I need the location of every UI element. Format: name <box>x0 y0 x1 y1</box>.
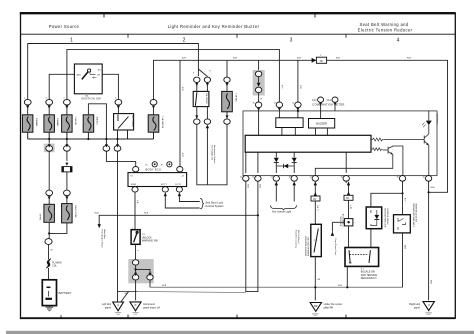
svg-text:R-B: R-B <box>297 58 301 60</box>
ground triangle instrument panel brace LH <box>130 302 160 314</box>
svg-text:2: 2 <box>183 38 186 44</box>
svg-text:R-B: R-B <box>407 58 411 60</box>
svg-text:W-B: W-B <box>338 285 343 287</box>
svg-text:IG: IG <box>131 176 134 178</box>
battery feed connector circle <box>45 239 52 245</box>
taillight reference arrow <box>206 125 209 129</box>
fuse F2 <box>44 115 59 132</box>
svg-text:D/L RELAY: D/L RELAY <box>205 94 208 105</box>
svg-text:INNER BUCKLE SW: INNER BUCKLE SW <box>308 237 310 256</box>
resistor R_b <box>371 148 383 151</box>
ignition switch box U1 <box>74 64 102 101</box>
diode pair under relay box <box>274 152 297 173</box>
svg-text:BATTERY: BATTERY <box>59 291 72 295</box>
svg-text:BODY ECU: BODY ECU <box>146 168 162 172</box>
unlock warning switch wire <box>134 192 136 230</box>
svg-text:panel: panel <box>414 307 421 310</box>
buckle sw and tension reducer LH box <box>345 248 379 281</box>
svg-text:panel brace LH: panel brace LH <box>143 306 160 309</box>
short link between ground stems <box>118 290 138 292</box>
combination meter container box <box>243 111 437 176</box>
fuse F5 <box>222 91 238 111</box>
svg-text:B-R: B-R <box>182 58 186 60</box>
svg-text:40A AM2: 40A AM2 <box>56 118 59 127</box>
svg-text:SW LH (Driver): SW LH (Driver) <box>297 230 299 244</box>
ground triangle center pillar RH <box>310 303 342 316</box>
svg-text:7.5A IGN: 7.5A IGN <box>74 117 77 126</box>
path fuse2 down to F7 <box>49 151 67 190</box>
ground under battery <box>46 306 54 311</box>
small inline box on x67 path <box>62 167 72 172</box>
svg-text:TENSION REDUCER: TENSION REDUCER <box>383 208 385 228</box>
svg-text:20A CIG RAD: 20A CIG RAD <box>74 205 77 218</box>
tap x180 down to BODY ECU <box>179 60 181 166</box>
svg-text:B-R: B-R <box>181 87 183 91</box>
svg-text:CONNECTOR: CONNECTOR <box>343 213 345 226</box>
fuse F7 <box>39 204 54 222</box>
svg-text:W-B: W-B <box>144 213 149 215</box>
meter top connector circles <box>255 102 301 108</box>
svg-text:15A A-F: 15A A-F <box>39 212 42 220</box>
Q1 emitter down to circle <box>428 145 430 175</box>
bottom scan bar <box>6 331 474 334</box>
sensor top pin to passenger wire <box>371 193 403 207</box>
right kick panel ground wire <box>428 181 430 300</box>
gray highlight behind circle <box>44 144 55 153</box>
fuse F1 <box>22 115 37 132</box>
seat sensor box with diode <box>366 207 389 229</box>
svg-text:7.5A GAUGE: 7.5A GAUGE <box>161 116 164 129</box>
diode junction on y60.3 wire <box>312 55 327 64</box>
wire fuse1 feed to relay junction <box>28 44 208 100</box>
svg-text:B-R: B-R <box>233 58 237 60</box>
svg-text:DRIVER'S SEAT BELT: DRIVER'S SEAT BELT <box>305 235 308 256</box>
connector circles below bus <box>46 146 121 152</box>
svg-text:W-B: W-B <box>95 213 100 215</box>
svg-text:See Interior Light: See Interior Light <box>272 211 291 214</box>
svg-text:INNER BUCKLE SW: INNER BUCKLE SW <box>415 204 417 223</box>
svg-text:JD: JD <box>346 197 349 200</box>
LH buckle branch x346.2/348.5 <box>344 181 353 218</box>
ground triangle left kick panel <box>102 302 124 314</box>
svg-text:15A ACC: 15A ACC <box>96 117 99 126</box>
buzzer box <box>309 119 335 129</box>
svg-text:1: 1 <box>70 38 73 44</box>
LH buckle ground pin <box>346 266 348 287</box>
body ecu bolt terminals <box>145 162 172 172</box>
svg-text:B-R: B-R <box>181 153 183 157</box>
svg-text:See Door Lock: See Door Lock <box>205 200 223 204</box>
svg-text:SEAT BELT: SEAT BELT <box>435 114 438 126</box>
svg-text:W-B: W-B <box>430 280 432 285</box>
svg-text:7.5A TAIL: 7.5A TAIL <box>234 93 237 103</box>
svg-text:Front Door Courtesy: Front Door Courtesy <box>295 230 298 248</box>
svg-text:1G: 1G <box>145 165 148 167</box>
relay R2 key reminder relay <box>193 91 209 106</box>
svg-text:B-Y: B-Y <box>403 198 405 202</box>
C10 C11 circles <box>318 97 338 102</box>
svg-text:2.0L: 2.0L <box>52 265 57 268</box>
fusible link FL MAIN <box>46 259 51 269</box>
unlock warning switch <box>131 228 158 245</box>
body ecu box <box>128 173 187 187</box>
ground wire y215.3 with reference arrow <box>99 215 259 224</box>
stems big box bottom to circles <box>246 152 346 173</box>
svg-text:JD: JD <box>320 59 323 63</box>
svg-text:Seat Belt Warning and: Seat Belt Warning and <box>359 22 408 27</box>
svg-text:W-B: W-B <box>403 245 405 250</box>
svg-text:JD: JD <box>313 198 316 201</box>
connector circle row above fuses <box>24 99 122 105</box>
svg-text:W-B: W-B <box>162 285 167 287</box>
junction circles above relay R2 <box>194 77 211 82</box>
wire to BODY ECU from circle 106 <box>106 151 135 166</box>
svg-text:GR: GR <box>125 293 129 295</box>
top fold ticks <box>104 14 315 18</box>
svg-text:L-R: L-R <box>316 205 318 209</box>
svg-text:Light Reminder and Key Reminde: Light Reminder and Key Reminder Buzzer <box>168 24 260 29</box>
gray junction strip x258.6 <box>258 60 260 71</box>
tap x227 to fuse F5 <box>226 60 228 77</box>
Q1 collector to seat belt indicator diode <box>428 125 430 134</box>
passenger buckle wire <box>402 181 404 215</box>
power seat reference arrow <box>331 222 345 255</box>
pins from inner boxes to relay box <box>282 128 328 136</box>
driver buckle switch box <box>305 224 322 256</box>
transistor Q2 <box>315 146 403 176</box>
ground bus to right side <box>150 286 403 288</box>
svg-text:PASSENGER SEAT BELT: PASSENGER SEAT BELT <box>412 204 415 228</box>
stub circles to fuse tops <box>28 105 119 115</box>
circle row below relay/fuse <box>194 119 231 124</box>
wire ACC pin to relay circle <box>102 74 118 99</box>
svg-text:CONTROL RELAY: CONTROL RELAY <box>386 208 389 225</box>
driver buckle branch x315.3 <box>311 181 320 224</box>
tap x297.9 down to meter <box>297 60 299 102</box>
svg-text:Main Wire: Main Wire <box>103 230 106 240</box>
passenger buckle switch box <box>394 204 417 233</box>
main bus under fuses <box>28 130 154 139</box>
svg-text:Electric Tension Reducer: Electric Tension Reducer <box>358 28 413 33</box>
transistor Q1 <box>384 134 429 145</box>
long ground wire x117.5 down to left kick panel <box>118 151 129 302</box>
body ecu bottom pin circles <box>132 187 183 192</box>
svg-text:See Taillight and: See Taillight and <box>210 145 213 161</box>
body ecu top pin circles <box>133 167 183 172</box>
svg-text:WARNING SW: WARNING SW <box>142 240 159 243</box>
stems into container <box>259 102 335 135</box>
door lock reference wires with brace <box>164 192 225 209</box>
svg-text:50A AM1: 50A AM1 <box>35 118 38 127</box>
fuse F4 <box>83 115 98 132</box>
svg-text:Power Source: Power Source <box>49 24 80 29</box>
svg-text:R-B: R-B <box>336 58 340 60</box>
svg-text:BUZZER: BUZZER <box>316 122 327 126</box>
svg-text:ACC: ACC <box>98 68 103 71</box>
wire AM1 pin to fuse2 <box>49 74 74 99</box>
circles above lower fuses <box>46 190 71 196</box>
svg-text:panel: panel <box>105 306 112 309</box>
svg-text:COMBINATION METER: COMBINATION METER <box>312 103 344 107</box>
header section ticks <box>128 34 346 38</box>
meter bottom connector circles <box>243 176 432 182</box>
seat belt warning relay box <box>245 135 371 152</box>
svg-text:W-B: W-B <box>246 184 248 189</box>
wire labels on y60 <box>182 58 411 60</box>
relay R1 ACC relay <box>114 114 134 130</box>
svg-text:DCTY: DCTY <box>175 184 181 186</box>
bus drop stems to lower circles <box>49 139 117 146</box>
svg-text:Illumination System: Illumination System <box>213 145 216 163</box>
main feed wire y60.3 across to right side <box>154 60 448 192</box>
ground triangle right kick panel <box>409 302 434 315</box>
inner box left (seat belt warning light) <box>276 118 303 128</box>
bottom section ticks <box>61 315 346 319</box>
svg-text:C10: C10 <box>312 99 317 102</box>
fuse F3 <box>62 115 77 132</box>
svg-text:3: 3 <box>290 38 293 44</box>
join below lower fuses <box>49 222 67 238</box>
fuse4 feed wire over to circle <box>88 104 106 145</box>
svg-text:4: 4 <box>397 38 400 44</box>
fuse F6 <box>148 115 164 132</box>
svg-text:From Power Seat: From Power Seat <box>334 239 337 256</box>
battery <box>42 280 71 306</box>
connector circle above fuse F6 <box>150 100 157 106</box>
interior light reference stubs <box>270 181 296 213</box>
svg-text:GR: GR <box>317 279 321 281</box>
svg-text:R-B: R-B <box>299 85 301 89</box>
seat belt warning LED diode <box>422 111 438 127</box>
resistor R_a <box>371 138 384 141</box>
wire IG bus y49.4 <box>67 49 280 101</box>
junction connector box <box>341 213 353 226</box>
sensor bottom pin to LH buckle box <box>370 229 372 248</box>
wires from circles 245.8 / 257.9 down to ground link <box>246 181 258 291</box>
fuse F8 <box>62 204 78 223</box>
svg-text:ACC RELAY: ACC RELAY <box>131 116 134 128</box>
svg-text:Control System: Control System <box>205 204 224 208</box>
svg-text:R-Y: R-Y <box>280 85 282 89</box>
U loop wire under relay <box>197 124 227 185</box>
svg-text:From Engine Room: From Engine Room <box>101 230 104 248</box>
svg-text:C11: C11 <box>327 99 332 102</box>
svg-text:W-B: W-B <box>258 184 260 189</box>
svg-text:ECTT: ECTT <box>161 184 167 186</box>
svg-text:IGNITION SW: IGNITION SW <box>81 97 101 101</box>
svg-text:pillar RH: pillar RH <box>324 307 334 310</box>
svg-text:W-B: W-B <box>431 187 436 189</box>
gray ground junction block <box>128 259 153 283</box>
svg-text:REDUCER LH: REDUCER LH <box>361 277 377 280</box>
svg-text:BR: BR <box>314 305 318 308</box>
